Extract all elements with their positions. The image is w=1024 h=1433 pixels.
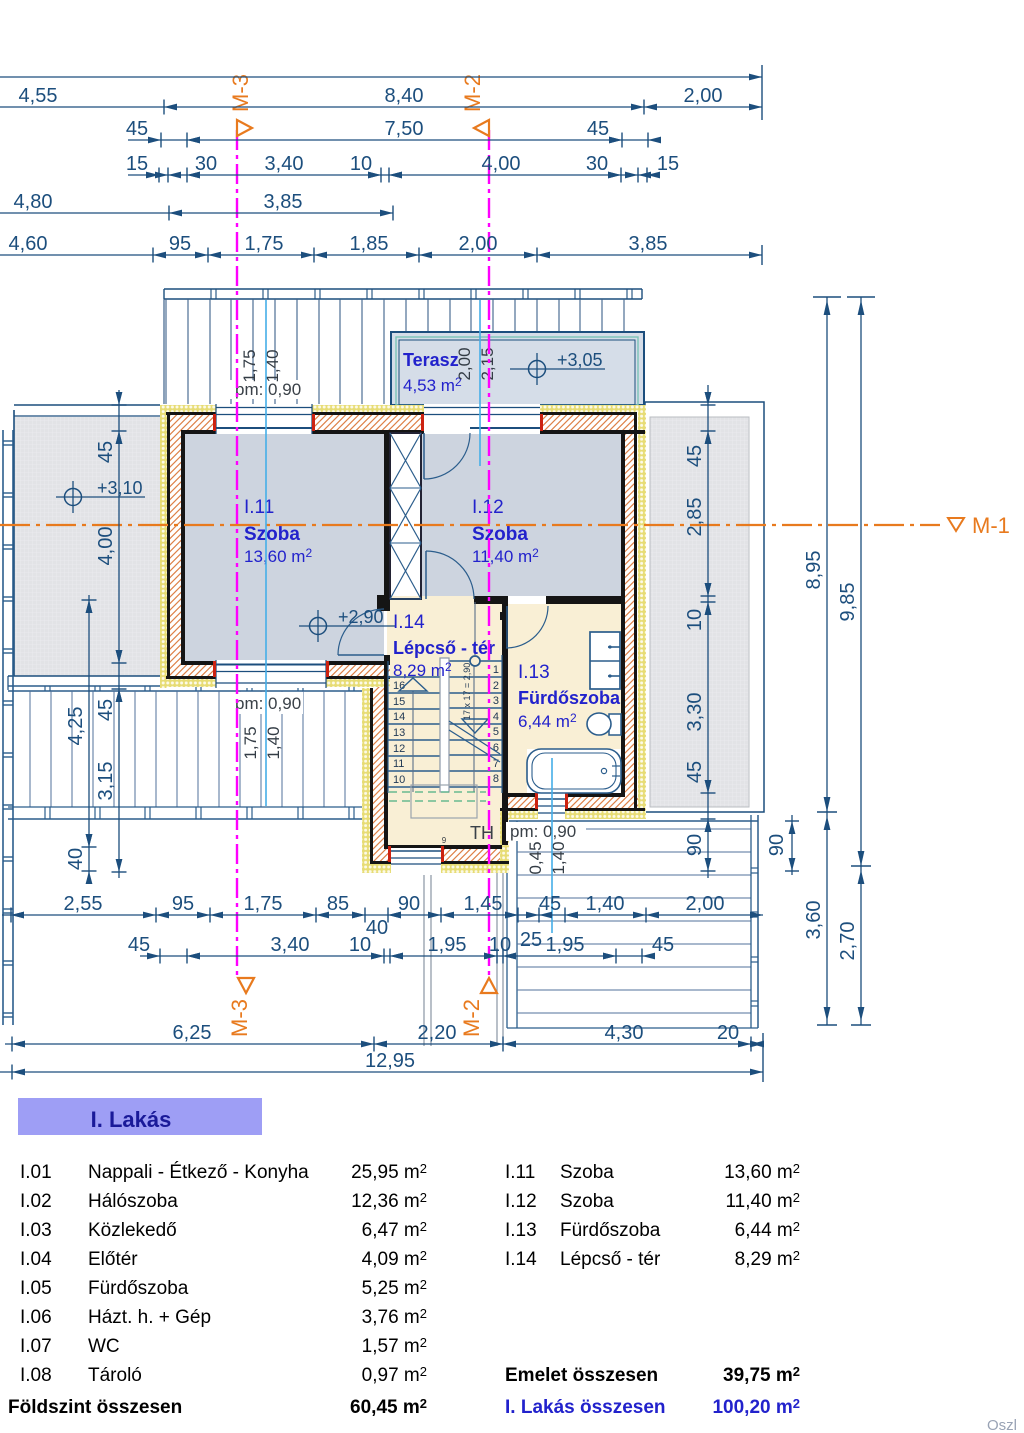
svg-text:Tároló: Tároló [88, 1365, 142, 1386]
svg-text:2,55: 2,55 [64, 893, 103, 915]
shaft X bracing [390, 433, 421, 599]
svg-text:45: 45 [684, 761, 706, 783]
svg-text:4,00: 4,00 [482, 153, 521, 175]
svg-text:2,70: 2,70 [837, 922, 859, 961]
room I.13 bathroom fill [508, 604, 621, 793]
svg-text:25: 25 [520, 929, 542, 951]
dimension chain right chain [707, 385, 709, 878]
svg-text:10: 10 [684, 609, 706, 631]
svg-text:1,40: 1,40 [586, 893, 625, 915]
toilet [609, 714, 621, 735]
svg-text:Szoba: Szoba [560, 1162, 614, 1183]
window W2 bottom of I.11 [216, 660, 326, 688]
svg-text:60,45 m2: 60,45 m2 [350, 1396, 427, 1418]
svg-text:1,75: 1,75 [240, 349, 259, 382]
svg-text:30: 30 [195, 153, 217, 175]
washbasin cabinet [590, 632, 620, 689]
svg-text:4,30: 4,30 [605, 1022, 644, 1044]
M-3 top marker [237, 120, 252, 136]
elevation marker +3,05 [529, 361, 546, 378]
svg-text:45: 45 [652, 934, 674, 956]
svg-text:pm: 0,90: pm: 0,90 [510, 822, 576, 841]
svg-text:45: 45 [684, 445, 706, 467]
svg-text:3,15: 3,15 [95, 762, 117, 801]
svg-text:Földszint összesen: Földszint összesen [8, 1397, 182, 1418]
svg-text:3,60: 3,60 [803, 901, 825, 940]
svg-text:2,85: 2,85 [684, 498, 706, 537]
svg-text:4,55: 4,55 [19, 85, 58, 107]
table header I. Lakás [18, 1098, 262, 1135]
svg-text:Nappali - Étkező - Konyha: Nappali - Étkező - Konyha [88, 1162, 309, 1183]
section line M-1 [0, 524, 940, 526]
svg-text:I.14: I.14 [505, 1249, 537, 1270]
svg-text:3: 3 [493, 695, 499, 707]
svg-text:40: 40 [65, 848, 87, 870]
stair stringer [440, 658, 449, 792]
window W1 top of I.11 [216, 404, 312, 434]
svg-text:I.12: I.12 [505, 1191, 537, 1212]
svg-text:3,40: 3,40 [265, 153, 304, 175]
svg-text:45: 45 [128, 934, 150, 956]
svg-text:I.01: I.01 [20, 1162, 52, 1183]
svg-text:11: 11 [393, 758, 404, 770]
svg-text:Fürdőszoba: Fürdőszoba [88, 1278, 189, 1299]
svg-text:5,25 m2: 5,25 m2 [362, 1277, 427, 1299]
svg-text:Házt. h. + Gép: Házt. h. + Gép [88, 1307, 211, 1328]
handrail post [470, 656, 480, 666]
svg-text:I.11: I.11 [505, 1162, 535, 1183]
bathtub [527, 749, 621, 793]
svg-text:2,00: 2,00 [459, 233, 498, 255]
svg-text:8,29 m2: 8,29 m2 [393, 660, 452, 680]
svg-text:10: 10 [349, 934, 371, 956]
svg-text:20: 20 [717, 1022, 739, 1044]
svg-text:2,00: 2,00 [686, 893, 725, 915]
M-2 bottom marker [481, 978, 497, 993]
svg-text:I. Lakás: I. Lakás [91, 1107, 172, 1132]
svg-text:M-2: M-2 [459, 999, 484, 1037]
svg-text:I.11: I.11 [244, 497, 274, 518]
svg-text:4: 4 [493, 711, 499, 723]
svg-text:Közlekedő: Közlekedő [88, 1220, 177, 1241]
svg-text:10: 10 [393, 774, 405, 786]
svg-text:30: 30 [586, 153, 608, 175]
svg-text:4,53 m2: 4,53 m2 [403, 375, 462, 395]
outer black wall outline [166, 412, 637, 415]
svg-text:I.08: I.08 [20, 1365, 52, 1386]
svg-text:WC: WC [88, 1336, 120, 1357]
svg-text:4,60: 4,60 [9, 233, 48, 255]
svg-text:15: 15 [393, 696, 405, 708]
svg-text:I. Lakás összesen: I. Lakás összesen [505, 1397, 666, 1418]
svg-text:Emelet összesen: Emelet összesen [505, 1365, 658, 1386]
svg-text:1,95: 1,95 [428, 934, 467, 956]
room I.11 fill [184, 433, 384, 661]
elevation marker +3,10 [65, 489, 82, 506]
terrace door/window opening [424, 404, 540, 434]
stairwell lower guide lines [423, 875, 425, 1046]
svg-text:pm: 0,90: pm: 0,90 [235, 694, 301, 713]
room I.12 fill [421, 433, 621, 596]
svg-text:45: 45 [539, 893, 561, 915]
svg-text:3,85: 3,85 [264, 191, 303, 213]
svg-text:1,45: 1,45 [464, 893, 503, 915]
dimension chain row I 6,25/2,20/4,30/20 [5, 1043, 763, 1045]
svg-text:M-3: M-3 [227, 999, 252, 1037]
svg-text:10: 10 [350, 153, 372, 175]
right side grid area [645, 402, 764, 812]
dim 3,60 [826, 812, 828, 1025]
svg-text:3,76 m2: 3,76 m2 [362, 1306, 427, 1328]
left upper balcony grid area [14, 417, 160, 676]
dimension chain row G [2, 914, 763, 916]
svg-text:Lépcső - tér: Lépcső - tér [560, 1249, 661, 1270]
svg-text:Oszl: Oszl [987, 1417, 1017, 1433]
svg-text:100,20 m2: 100,20 m2 [712, 1396, 800, 1418]
svg-text:45: 45 [587, 118, 609, 140]
dim 2,70 [860, 866, 862, 1025]
svg-text:4,09 m2: 4,09 m2 [362, 1248, 427, 1270]
rafter strips left [165, 299, 167, 404]
svg-text:I.04: I.04 [20, 1249, 52, 1270]
svg-text:1,75: 1,75 [245, 233, 284, 255]
stair up arrow [399, 678, 427, 691]
svg-text:0,45: 0,45 [526, 841, 545, 874]
svg-text:2,15: 2,15 [478, 347, 497, 380]
dimension chain row E 4,80/3,85 [0, 212, 393, 214]
stair break line [449, 721, 500, 754]
svg-text:13,60 m2: 13,60 m2 [244, 546, 312, 566]
cyan guide line B [479, 300, 481, 466]
svg-text:12: 12 [393, 743, 405, 755]
svg-text:39,75 m2: 39,75 m2 [723, 1364, 800, 1386]
landing dashed lines [389, 791, 486, 793]
svg-text:90: 90 [766, 834, 788, 856]
svg-text:17 x 17 = 2,90: 17 x 17 = 2,90 [462, 663, 472, 720]
svg-text:+2,90: +2,90 [338, 607, 384, 627]
svg-text:95: 95 [169, 233, 191, 255]
svg-text:Szoba: Szoba [560, 1191, 614, 1212]
interior wall lines [181, 430, 645, 434]
svg-text:+3,10: +3,10 [97, 478, 143, 498]
right 90 dim [791, 815, 793, 875]
roof gutter band [164, 288, 642, 290]
cyan guide line C [551, 758, 553, 933]
svg-text:1: 1 [493, 664, 499, 676]
svg-text:I.03: I.03 [20, 1220, 52, 1241]
svg-text:85: 85 [327, 893, 349, 915]
svg-text:8,29 m2: 8,29 m2 [735, 1248, 800, 1270]
svg-text:1,75: 1,75 [244, 893, 283, 915]
svg-text:M-2: M-2 [460, 74, 485, 112]
svg-text:M-3: M-3 [228, 74, 253, 112]
dimension chain row F 4,60/95/1,75/1,85/2,00/3,85 [0, 254, 762, 256]
svg-text:3,30: 3,30 [684, 693, 706, 732]
cyan guide line A [265, 300, 267, 806]
svg-text:+3,05: +3,05 [557, 350, 603, 370]
svg-text:Szoba: Szoba [244, 524, 300, 545]
svg-text:90: 90 [398, 893, 420, 915]
svg-text:45: 45 [95, 441, 117, 463]
svg-text:11,40 m2: 11,40 m2 [726, 1190, 800, 1212]
svg-text:8,40: 8,40 [385, 85, 424, 107]
svg-text:TH: TH [470, 823, 494, 843]
elevation marker +2,90 [310, 618, 327, 635]
svg-text:9: 9 [442, 836, 447, 845]
left edge pergola strip [2, 430, 4, 1025]
svg-text:I.13: I.13 [518, 662, 550, 683]
dimension chain left chain 4,25/40 [88, 595, 90, 880]
stair flights [449, 660, 502, 662]
svg-text:I.06: I.06 [20, 1307, 52, 1328]
top chain row A [0, 76, 762, 78]
svg-text:45: 45 [95, 699, 117, 721]
long dim 9,85 [860, 297, 862, 866]
svg-text:I.07: I.07 [20, 1336, 52, 1357]
svg-text:2,00: 2,00 [455, 347, 474, 380]
hatched walls [166, 415, 637, 430]
svg-text:I.02: I.02 [20, 1191, 52, 1212]
dimension chain row J 12,95 [0, 1071, 763, 1073]
door I.13 bathroom [506, 606, 508, 648]
svg-text:I.05: I.05 [20, 1278, 52, 1299]
svg-text:2,20: 2,20 [418, 1022, 457, 1044]
stair down arrow [462, 719, 488, 733]
svg-text:4,25: 4,25 [65, 707, 87, 746]
svg-text:8: 8 [493, 773, 499, 785]
svg-text:2: 2 [493, 680, 499, 692]
svg-text:Szoba: Szoba [472, 524, 528, 545]
svg-text:3,40: 3,40 [271, 934, 310, 956]
svg-text:11,40 m2: 11,40 m2 [472, 546, 539, 566]
svg-text:Fürdőszoba: Fürdőszoba [518, 688, 621, 708]
long dim 8,95 [826, 297, 828, 812]
M-2 top marker [474, 120, 489, 136]
svg-text:13: 13 [393, 727, 405, 739]
room I.14 stair hall fill [387, 596, 502, 845]
landing rectangle [411, 785, 477, 818]
section line M-3 [236, 130, 238, 978]
dimension chain left chain 45/4,00/45/3,15 [118, 390, 120, 878]
svg-text:15: 15 [126, 153, 148, 175]
terrace Terasz outline [391, 332, 644, 405]
svg-text:2,00: 2,00 [684, 85, 723, 107]
svg-text:12,95: 12,95 [365, 1050, 415, 1072]
svg-text:1,85: 1,85 [350, 233, 389, 255]
svg-text:6,44 m2: 6,44 m2 [735, 1219, 800, 1241]
svg-text:6,25: 6,25 [173, 1022, 212, 1044]
insulation band outer [160, 405, 646, 412]
dimension chain row B 4,55/8,40/2,00 [0, 106, 762, 108]
svg-text:Terasz: Terasz [403, 350, 459, 370]
svg-text:5: 5 [493, 726, 499, 738]
svg-text:15: 15 [657, 153, 679, 175]
stair direction shafts [412, 691, 414, 792]
dimension chain row H [140, 955, 655, 957]
dimension chain row C 45/7,50/45 [128, 139, 660, 141]
svg-text:4,00: 4,00 [95, 527, 117, 566]
section line M-2 [488, 130, 490, 978]
svg-text:45: 45 [126, 118, 148, 140]
svg-text:Előtér: Előtér [88, 1249, 138, 1270]
door I.12 to terrace [423, 433, 425, 479]
svg-text:8,95: 8,95 [803, 551, 825, 590]
svg-text:14: 14 [393, 711, 405, 723]
svg-text:1,75: 1,75 [241, 726, 260, 759]
svg-text:6,47 m2: 6,47 m2 [362, 1219, 427, 1241]
shaft fill [390, 433, 421, 599]
svg-text:Hálószoba: Hálószoba [88, 1191, 178, 1212]
svg-text:90: 90 [684, 834, 706, 856]
svg-text:10: 10 [489, 934, 511, 956]
lower-left deck boards [8, 685, 362, 687]
svg-text:I.14: I.14 [393, 612, 425, 633]
bathroom bottom window [538, 793, 565, 820]
door I.11 to I.14 [338, 654, 384, 656]
svg-text:4,80: 4,80 [14, 191, 53, 213]
svg-text:7,50: 7,50 [385, 118, 424, 140]
rafter strips over terrace [405, 299, 407, 331]
door I.12 to I.14 [425, 551, 427, 599]
svg-text:1,57 m2: 1,57 m2 [362, 1335, 427, 1357]
M-3 bottom marker [238, 978, 254, 993]
svg-text:3,85: 3,85 [629, 233, 668, 255]
svg-text:12,36 m2: 12,36 m2 [351, 1190, 427, 1212]
svg-text:M-1: M-1 [972, 513, 1010, 538]
svg-text:Lépcső - tér: Lépcső - tér [393, 638, 495, 658]
lower-right deck boards [507, 820, 758, 822]
svg-text:95: 95 [172, 893, 194, 915]
svg-text:25,95 m2: 25,95 m2 [351, 1161, 427, 1183]
svg-text:I.13: I.13 [505, 1220, 537, 1241]
svg-text:9,85: 9,85 [837, 583, 859, 622]
svg-text:1,40: 1,40 [264, 726, 283, 759]
svg-text:Fürdőszoba: Fürdőszoba [560, 1220, 661, 1241]
svg-text:0,97 m2: 0,97 m2 [362, 1364, 427, 1386]
stairwell bottom window [391, 848, 441, 873]
svg-text:6,44 m2: 6,44 m2 [518, 711, 577, 731]
dimension chain row D 15/30/3,40/10/4,00/30/15 [128, 174, 660, 176]
svg-text:13,60 m2: 13,60 m2 [724, 1161, 800, 1183]
window sill labels pm [230, 380, 300, 399]
svg-text:1,95: 1,95 [546, 934, 585, 956]
